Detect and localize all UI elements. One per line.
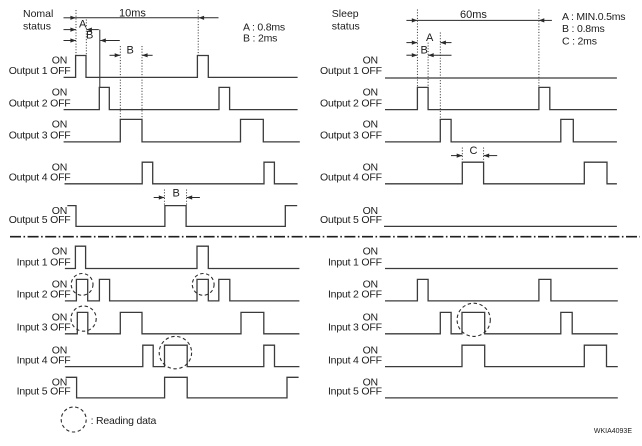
svg-text:Output 2 OFF: Output 2 OFF xyxy=(320,97,382,109)
svg-text:status: status xyxy=(23,21,51,33)
wire waveform Input3 right xyxy=(385,312,618,333)
svg-text:C: C xyxy=(470,145,478,157)
node dimension A xyxy=(64,19,99,32)
svg-text:Output 1 OFF: Output 1 OFF xyxy=(9,65,71,77)
wire waveform Output3 left xyxy=(64,119,300,141)
wire waveform Input5 right (flat) xyxy=(385,397,618,399)
wire waveform Input3 left xyxy=(65,312,300,333)
wire waveform Output4 left xyxy=(65,162,298,184)
svg-text:WKIA4093E: WKIA4093E xyxy=(594,428,632,435)
svg-text:B: B xyxy=(127,45,134,57)
node reading circle Input3 left xyxy=(71,306,96,331)
wire waveform Input2 right xyxy=(385,279,618,301)
svg-text:Input 4 OFF: Input 4 OFF xyxy=(328,354,382,366)
wire waveform Input4 left xyxy=(65,345,300,366)
wire dash-dot separator xyxy=(10,236,640,238)
svg-text:Input 3 OFF: Input 3 OFF xyxy=(17,322,71,334)
wire waveform Output5 right (flat) xyxy=(384,225,617,227)
svg-text:status: status xyxy=(332,21,360,33)
svg-text:B: B xyxy=(173,187,180,199)
svg-text:Input 5 OFF: Input 5 OFF xyxy=(17,386,71,398)
svg-text:B : 2ms: B : 2ms xyxy=(243,33,277,45)
svg-text:Output 2 OFF: Output 2 OFF xyxy=(9,97,71,109)
node legend reading-data circle xyxy=(61,407,86,432)
node reading circle Input3 right xyxy=(457,303,490,336)
node dimension B right xyxy=(406,45,451,58)
node dimension B upper xyxy=(64,30,120,43)
wire waveform Input1 left xyxy=(65,246,300,268)
svg-text:Input 3 OFF: Input 3 OFF xyxy=(328,322,382,334)
node dimension C right xyxy=(451,145,497,158)
wire waveform Output5 left xyxy=(67,206,297,227)
svg-text:60ms: 60ms xyxy=(460,9,487,21)
svg-text:Input 1 OFF: Input 1 OFF xyxy=(17,256,71,268)
node dimension B output5 xyxy=(154,187,200,199)
node reading circle Input4 left xyxy=(159,336,191,368)
svg-text:B: B xyxy=(421,45,428,57)
node dimension A right xyxy=(406,32,451,45)
wire dotted extension lines left xyxy=(76,10,198,205)
svg-text:Output 3 OFF: Output 3 OFF xyxy=(320,130,382,142)
svg-text:Input 2 OFF: Input 2 OFF xyxy=(328,289,382,301)
svg-text:A: A xyxy=(426,32,434,44)
svg-text:Output 4 OFF: Output 4 OFF xyxy=(320,172,382,184)
svg-text:C : 2ms: C : 2ms xyxy=(562,36,597,48)
svg-text:: Reading data: : Reading data xyxy=(91,415,157,427)
svg-text:Input 5 OFF: Input 5 OFF xyxy=(328,386,382,398)
svg-text:Output 5 OFF: Output 5 OFF xyxy=(320,214,382,226)
wire dotted extension lines right xyxy=(417,10,539,163)
svg-text:A : MIN.0.5ms: A : MIN.0.5ms xyxy=(562,11,625,23)
node 10ms dimension xyxy=(64,8,219,20)
wire waveform Input1 right (flat) xyxy=(385,268,618,270)
wire waveform Output2 left xyxy=(64,87,298,109)
wire waveform Input2 left xyxy=(65,279,300,301)
wire waveform Output3 right xyxy=(385,119,617,141)
node reading circle Input2 left second xyxy=(192,274,214,296)
svg-text:Output 4 OFF: Output 4 OFF xyxy=(9,172,71,184)
wire waveform Input4 right xyxy=(385,345,618,366)
svg-text:Sleep: Sleep xyxy=(332,8,359,20)
svg-text:B : 0.8ms: B : 0.8ms xyxy=(562,23,605,35)
svg-text:Nomal: Nomal xyxy=(23,8,53,20)
wire waveform Output4 right xyxy=(385,162,617,184)
svg-text:Input 2 OFF: Input 2 OFF xyxy=(17,289,71,301)
svg-text:Output 5 OFF: Output 5 OFF xyxy=(9,214,71,226)
wire waveform Input5 left xyxy=(66,377,299,398)
svg-text:Input 4 OFF: Input 4 OFF xyxy=(17,354,71,366)
wire waveform Output2 right xyxy=(385,87,617,109)
wire waveform Output1 left xyxy=(64,56,298,78)
svg-text:Input 1 OFF: Input 1 OFF xyxy=(328,256,382,268)
svg-text:Output 1 OFF: Output 1 OFF xyxy=(320,65,382,77)
wire waveform Output1 right (flat) xyxy=(385,77,617,79)
wire solid extension line output2 rise xyxy=(99,30,101,88)
svg-text:B: B xyxy=(86,30,93,42)
node 60ms dimension xyxy=(406,9,552,23)
svg-text:Output 3 OFF: Output 3 OFF xyxy=(9,130,71,142)
node reading circle Input2 left first xyxy=(71,274,93,296)
node dimension B output3 xyxy=(110,45,153,58)
